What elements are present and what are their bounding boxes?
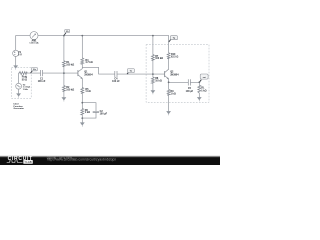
junction output node: [198, 81, 200, 83]
svg-text:100 kΩ: 100 kΩ: [66, 64, 74, 67]
svg-text:100 nF: 100 nF: [38, 80, 46, 83]
svg-text:4.7 kΩ: 4.7 kΩ: [85, 61, 92, 64]
input flag Vin: [31, 68, 38, 74]
transistor Q2: [165, 69, 169, 79]
resistor R8 stage2 lower: [152, 77, 155, 83]
wire: R1 column from rail: [63, 36, 65, 61]
wire: R2 bottom to ground: [63, 92, 65, 98]
wire: R10 bottom to Q2 collector: [168, 59, 170, 69]
wire: RE2 to ground: [168, 95, 170, 111]
junction Q1 base node: [63, 72, 65, 74]
svg-text:100 kΩ: 100 kΩ: [155, 57, 163, 60]
wire: output row to C4: [169, 81, 189, 83]
wire: R4 from rail to collector: [81, 36, 83, 58]
svg-text:Generator: Generator: [14, 107, 25, 110]
ground RL: [197, 97, 202, 101]
resistor R9 stage2 emitter: [167, 89, 170, 95]
junction bypass bottom node: [81, 117, 83, 119]
svg-text:2N3904: 2N3904: [84, 74, 93, 77]
source V2 sine: [16, 83, 22, 89]
transistor Q1: [78, 69, 82, 79]
ground below R2: [62, 97, 67, 101]
svg-text:100 µF: 100 µF: [100, 112, 108, 115]
svg-text:1 kΩ: 1 kΩ: [201, 89, 206, 92]
resistor R3 source: [19, 72, 27, 75]
svg-text:2N3904: 2N3904: [170, 74, 179, 77]
output flag: [199, 74, 208, 82]
junction rail / R1 column: [63, 35, 65, 37]
ground stage2 divider: [151, 90, 156, 94]
resistor R6 bypass: [81, 108, 84, 115]
input source dashed box: [11, 67, 31, 98]
svg-text:1 kΩ: 1 kΩ: [171, 92, 176, 95]
ground stage2 emitter: [166, 111, 171, 115]
wire: bypass loop: [82, 103, 96, 123]
ground below V1: [13, 65, 18, 69]
wire: V2 to ground: [18, 89, 20, 93]
mid flag node: [127, 69, 134, 75]
wire: Q2 emitter node: [168, 79, 170, 89]
junction Q2 emitter node: [168, 81, 170, 83]
capacitor C2 bypass: [93, 111, 99, 112]
wire: C4 to load node: [191, 81, 200, 83]
svg-text:50 Ω: 50 Ω: [22, 78, 27, 81]
svg-text:1 kΩ: 1 kΩ: [85, 111, 90, 114]
resistor R7 stage2 upper: [152, 55, 155, 61]
wire: R1 bottom to base node: [63, 67, 65, 86]
stage2 dashed box: [146, 45, 209, 103]
svg-text:1.351 mA: 1.351 mA: [29, 42, 39, 45]
wire: Q1 emitter to RE1: [81, 79, 83, 88]
svg-text:5 V: 5 V: [18, 54, 22, 57]
flag Vb on rail junction: [64, 29, 70, 35]
junction rail / R7 column: [152, 35, 154, 37]
svg-text:1 kΩ: 1 kΩ: [85, 90, 90, 93]
capacitor C3 input: [40, 70, 42, 76]
junction bypass top node: [81, 102, 83, 104]
junction rail / R4 column: [81, 35, 83, 37]
wire: collector node step to C1: [82, 67, 114, 74]
wire: RE1 bottom to bypass node: [81, 93, 83, 108]
wire: RL column: [198, 82, 200, 97]
flag VCC right: [169, 36, 178, 42]
resistor R2: [63, 86, 66, 92]
resistor R1: [63, 61, 66, 67]
ground below V2: [16, 93, 21, 97]
svg-text:100 kΩ: 100 kΩ: [66, 88, 74, 91]
wire: stage2 divider top: [152, 36, 154, 55]
ammeter AM1: [30, 32, 38, 40]
junction Q2 base node: [152, 73, 154, 75]
svg-text:out: out: [203, 76, 206, 79]
svg-text:10 kΩ: 10 kΩ: [155, 79, 162, 82]
svg-text:LAB: LAB: [26, 160, 31, 164]
svg-text:100 µF: 100 µF: [186, 90, 194, 93]
wire: base wire input row: [18, 73, 21, 83]
svg-text:1 kHz: 1 kHz: [23, 89, 28, 91]
svg-text:100 nF: 100 nF: [112, 80, 120, 83]
resistor R5 emitter: [81, 88, 84, 94]
resistor RL: [198, 85, 201, 93]
svg-text:http://www.circuitlab.com/circ: http://www.circuitlab.com/circuit/zyaxbn…: [47, 158, 116, 162]
wire: top supply rail: [16, 36, 30, 51]
capacitor C4 output: [188, 79, 190, 85]
resistor R10 stage2 collector: [167, 53, 170, 59]
voltage source V1: [13, 50, 19, 56]
wire: C1 to Q2 base: [117, 73, 164, 75]
ground below bypass: [80, 122, 85, 126]
capacitor C1 coupling: [115, 71, 117, 77]
resistor R4 collector: [81, 58, 84, 64]
svg-text:62.5 Ω: 62.5 Ω: [171, 56, 178, 59]
wire: V1 down to ground: [15, 56, 17, 65]
